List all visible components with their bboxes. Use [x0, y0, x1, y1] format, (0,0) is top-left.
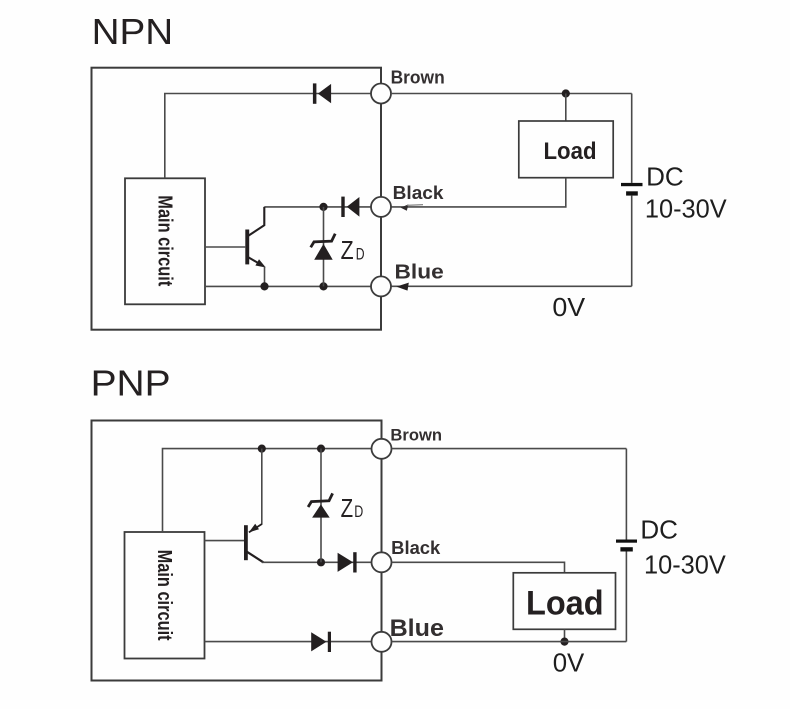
- zener diode ZD (NPN) vertical wire: [323, 207, 325, 287]
- rail battery down to 0V line (PNP): [625, 552, 627, 642]
- svg-text:Black: Black: [393, 183, 445, 203]
- svg-text:Main circuit: Main circuit: [153, 195, 175, 286]
- transistor Q2 (PNP) emitter riser from brown line: [261, 449, 263, 525]
- svg-text:Blue: Blue: [390, 615, 444, 642]
- ZD triangle (PNP, pointing up): [312, 504, 330, 517]
- wire: base from main circuit (PNP): [205, 540, 245, 542]
- sensor outline box (PNP): [92, 421, 382, 681]
- junction dot emitter top: [258, 445, 266, 453]
- ZD cathode bar with bent ends (PNP): [308, 493, 333, 507]
- junction dot on brown wire: [562, 89, 570, 97]
- Q2 base bar: [244, 525, 248, 560]
- load box (NPN): [519, 121, 613, 178]
- wire: brown terminal to supply rail (PNP): [392, 448, 627, 450]
- junction dot zener bottom (PNP): [317, 558, 325, 566]
- Q2 collector diagonal: [247, 552, 263, 563]
- arrowhead on black wire pointing left: [401, 204, 409, 210]
- terminal circle: Blue: [371, 276, 391, 296]
- diode D4 on blue wire (pointing right, bar right): [311, 632, 331, 652]
- wire: main circuit top riser to brown line: [163, 449, 373, 532]
- inner black wire: collector to black terminal (PNP): [262, 561, 372, 563]
- transistor Q1 (NPN) base bar: [245, 230, 249, 265]
- diode D3 on black wire (pointing right, bar right): [338, 552, 357, 572]
- terminal circle: Blue (PNP): [372, 632, 392, 652]
- Q1 emitter with arrow: [249, 257, 259, 263]
- terminal circle: Black: [371, 197, 391, 217]
- wire: main circuit top riser to brown line: [165, 94, 372, 179]
- svg-text:D: D: [354, 502, 363, 521]
- svg-text:Brown: Brown: [391, 68, 445, 88]
- junction dot load bottom (PNP): [560, 638, 568, 646]
- Q2 emitter diagonal with arrow pointing at base bar: [249, 524, 262, 532]
- battery DC: long positive bar: [621, 183, 643, 186]
- inner blue wire from main circuit (PNP): [205, 641, 373, 643]
- diode D1 on brown wire (cathode bar left, pointing left): [313, 83, 331, 103]
- svg-text:10-30V: 10-30V: [645, 194, 727, 224]
- main circuit block U1: [125, 178, 205, 304]
- svg-text:DC: DC: [646, 161, 684, 191]
- battery DC long bar (PNP): [616, 540, 637, 543]
- wire: black terminal to load (PNP): [392, 562, 565, 573]
- svg-text:Black: Black: [391, 538, 441, 558]
- wire: emitter down to 0V inner wire: [264, 267, 266, 287]
- load box (PNP): [513, 573, 615, 630]
- arrowhead on blue wire pointing left: [396, 283, 409, 291]
- inner bottom wire (emitter/zener to blue terminal): [205, 285, 371, 287]
- supply rail down to battery (PNP): [625, 449, 627, 540]
- wire: load bottom to 0V line (PNP): [564, 629, 566, 641]
- rail: battery down to 0V line: [631, 196, 633, 287]
- svg-text:PNP: PNP: [91, 362, 171, 403]
- ZD triangle (anode, pointing up): [314, 244, 333, 260]
- svg-text:Load: Load: [544, 138, 597, 165]
- junction dot zener top: [319, 203, 327, 211]
- wire: base from main circuit: [205, 246, 245, 248]
- terminal circle: Black (PNP): [372, 552, 392, 572]
- diode D2 on black wire (cathode bar left, pointing left): [341, 197, 359, 217]
- svg-text:NPN: NPN: [92, 11, 174, 52]
- svg-text:Blue: Blue: [395, 262, 444, 284]
- main circuit block U2: [125, 532, 205, 659]
- supply rail: brown corner down to battery: [631, 94, 633, 183]
- junction dot emitter: [260, 282, 268, 290]
- wire: load bottom to black terminal: [391, 178, 566, 207]
- svg-text:0V: 0V: [552, 292, 585, 322]
- wire: blue terminal to rail (0V line): [391, 285, 632, 287]
- wire: brown terminal to supply rail: [391, 93, 632, 95]
- svg-text:Main circuit: Main circuit: [153, 550, 175, 641]
- zener diode ZD (PNP) vertical wire: [320, 449, 322, 563]
- terminal circle: Brown: [371, 84, 391, 104]
- svg-text:10-30V: 10-30V: [644, 549, 726, 579]
- Q1 collector: [249, 207, 265, 236]
- junction dot zener bottom: [319, 282, 327, 290]
- sensor outline box (NPN): [92, 68, 382, 330]
- battery DC short bar (PNP): [620, 547, 632, 551]
- svg-text:Z: Z: [341, 493, 354, 523]
- svg-text:DC: DC: [640, 514, 678, 544]
- svg-text:Brown: Brown: [390, 425, 442, 444]
- junction dot zener top: [317, 445, 325, 453]
- terminal circle: Brown (PNP): [372, 439, 392, 459]
- ZD cathode bar with bent ends: [311, 234, 336, 248]
- battery DC: short negative bar: [626, 191, 638, 195]
- svg-text:Load: Load: [526, 585, 604, 623]
- wire: blue terminal to rail 0V (PNP): [392, 641, 627, 643]
- inner black wire: collector corner to black terminal: [264, 206, 371, 208]
- wire: junction down to load: [565, 94, 567, 122]
- svg-text:D: D: [356, 244, 365, 263]
- svg-text:Z: Z: [341, 235, 354, 265]
- svg-text:0V: 0V: [553, 647, 585, 677]
